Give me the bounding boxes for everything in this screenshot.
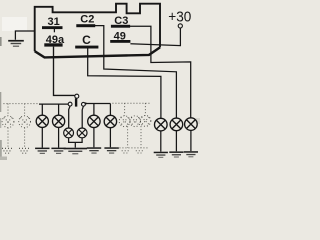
svg-text:49: 49 xyxy=(114,31,126,43)
svg-text:C3: C3 xyxy=(114,15,128,27)
svg-text:C: C xyxy=(82,33,91,47)
svg-text:C2: C2 xyxy=(80,14,94,26)
svg-text:49a: 49a xyxy=(46,34,65,46)
svg-text:+30: +30 xyxy=(168,8,191,25)
svg-text:31: 31 xyxy=(47,16,59,28)
